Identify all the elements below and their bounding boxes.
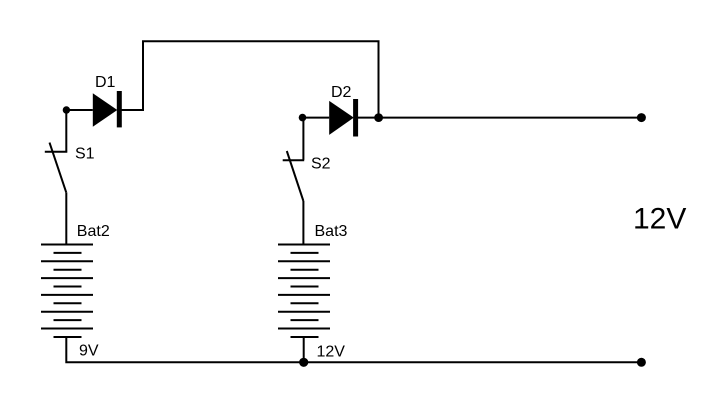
svg-text:12V: 12V (633, 203, 686, 236)
svg-text:S2: S2 (311, 156, 331, 173)
svg-text:D1: D1 (95, 74, 116, 91)
svg-text:Bat2: Bat2 (77, 223, 110, 240)
svg-text:12V: 12V (317, 343, 346, 360)
svg-text:9V: 9V (79, 343, 99, 360)
svg-text:S1: S1 (75, 146, 95, 163)
svg-text:D2: D2 (331, 84, 352, 101)
svg-text:Bat3: Bat3 (315, 223, 348, 240)
